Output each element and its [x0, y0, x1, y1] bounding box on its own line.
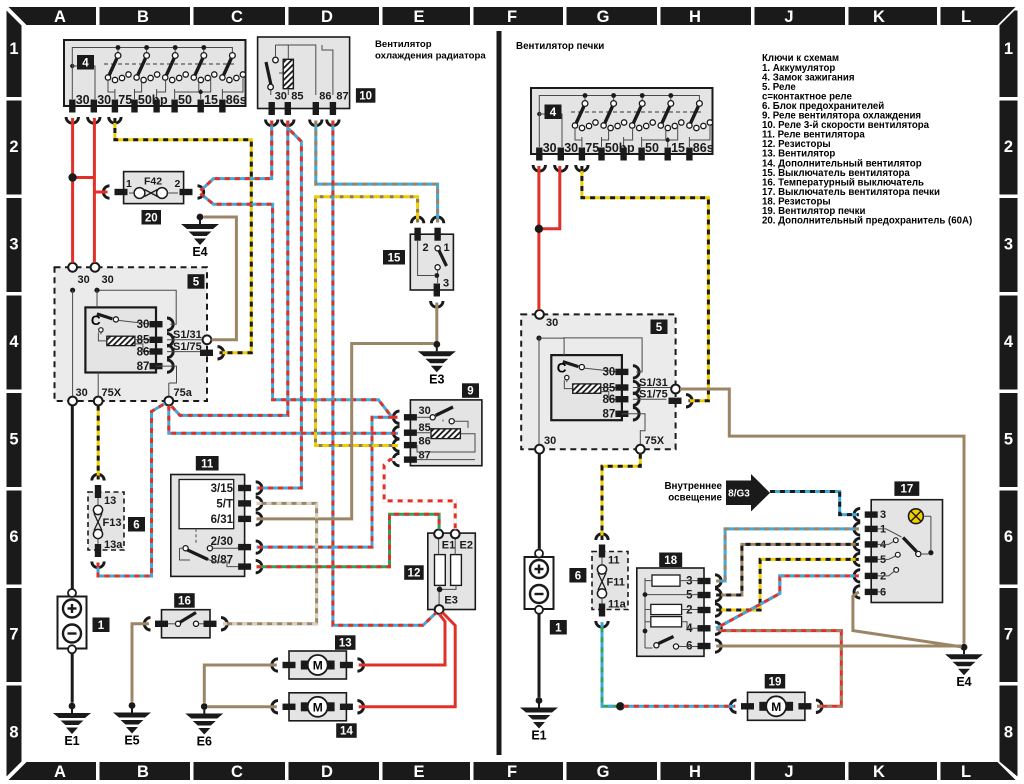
title: radiator fan circuit: [375, 39, 486, 62]
svg-text:30: 30: [97, 93, 111, 107]
svg-text:75X: 75X: [645, 435, 665, 447]
wire resistors12 E3 to fan14: [359, 613, 456, 707]
component tag 4 (left ignition switch-tag): [77, 55, 94, 70]
svg-text:2: 2: [1004, 138, 1013, 156]
svg-text:30: 30: [564, 141, 578, 155]
svg-text:p: p: [160, 93, 168, 107]
svg-text:20: 20: [145, 212, 158, 224]
component tag 1 (left battery-tag): [93, 618, 110, 633]
svg-text:M: M: [313, 700, 323, 714]
wire ignition(R) 30 to relay5R: [537, 166, 540, 310]
svg-text:2: 2: [423, 242, 429, 254]
svg-text:5: 5: [686, 590, 693, 602]
component tag 6 (fuse F11-tag): [569, 568, 586, 583]
svg-text:E2: E2: [460, 540, 473, 552]
wire resistors18 pin6 to ground E4: [716, 645, 961, 648]
relay 5 (left) outer dashed block: [55, 267, 208, 401]
svg-text:14: 14: [340, 726, 353, 738]
svg-text:85: 85: [603, 382, 616, 394]
svg-text:5: 5: [1004, 430, 1013, 448]
battery 1 (left battery): [58, 589, 87, 653]
svg-text:30: 30: [544, 435, 556, 447]
wire resistors18 pin5 to switch17 pin4: [716, 544, 859, 595]
svg-text:20. Дополнительный предохранит: 20. Дополнительный предохранитель (60А): [762, 216, 972, 227]
svg-text:G: G: [597, 763, 610, 781]
wire ignition 75 to relay5 S1/75: [115, 118, 251, 353]
svg-text:86: 86: [419, 436, 431, 448]
svg-text:75X: 75X: [102, 387, 122, 399]
wire relay11 5/T to temp switch 16: [223, 503, 317, 623]
svg-text:2: 2: [175, 178, 181, 190]
motor (fan 13): [272, 651, 364, 679]
svg-text:E4: E4: [192, 245, 207, 259]
component tag 20 (fuseF42-tag): [142, 210, 162, 225]
ignition switch 4 (right ignition switch): [531, 88, 714, 171]
junction heater fan feed: [616, 702, 624, 710]
component tag 18 (comp18-tag): [659, 553, 682, 568]
svg-text:30: 30: [546, 317, 558, 329]
svg-text:87: 87: [137, 361, 150, 373]
svg-text:освещение: освещение: [668, 493, 722, 504]
wire fuse F13 to 75a: [98, 404, 165, 577]
battery 1 (right battery): [525, 550, 554, 614]
svg-text:30: 30: [603, 367, 616, 379]
svg-text:6: 6: [9, 528, 18, 546]
svg-text:50: 50: [178, 93, 192, 107]
relay 10 (3rd speed fan relay): [258, 37, 350, 126]
legend: key to diagrams: [762, 53, 972, 226]
relay 5 (right) outer dashed block: [521, 314, 675, 449]
wire relay10 pin85 to relay11 3/15: [257, 122, 302, 488]
svg-text:C: C: [231, 8, 243, 26]
junction heater feed: [535, 225, 543, 233]
svg-text:11: 11: [608, 555, 620, 567]
relay 11 (fan relay block): [171, 475, 262, 577]
wire arrow 8/G3 to switch17 pin3: [770, 492, 859, 515]
svg-text:3: 3: [880, 509, 886, 521]
svg-text:50: 50: [645, 141, 659, 155]
wire junction to heater fan 19: [624, 705, 736, 708]
svg-text:D: D: [321, 8, 333, 26]
wire relay5R S1/31 to ground E4: [680, 389, 964, 644]
wire ignition(R) 30b link: [543, 166, 560, 229]
component tag 1 (right battery-tag): [550, 620, 567, 635]
svg-text:30: 30: [419, 405, 431, 417]
wire feed to fuse F42 pin1: [94, 191, 107, 194]
svg-text:M: M: [313, 659, 323, 673]
ground E4 (radiator relay ground): [181, 214, 219, 259]
component tag 9 (relay9-tag): [462, 383, 479, 398]
wire temp switch 16 to ground E5: [132, 624, 149, 702]
svg-text:30: 30: [76, 387, 88, 399]
svg-text:A: A: [54, 763, 66, 781]
component tag 15 (switch15-tag): [383, 250, 405, 265]
svg-text:8: 8: [1004, 723, 1013, 741]
svg-text:E: E: [413, 763, 424, 781]
svg-text:2: 2: [9, 138, 18, 156]
component tag 6 (fuse F13-tag): [128, 517, 145, 532]
svg-text:2: 2: [686, 605, 692, 617]
svg-text:5: 5: [9, 430, 18, 448]
component tag 11 (relay11-tag): [196, 456, 219, 471]
relay 5 (left) contact relay C: [85, 290, 176, 373]
component tag 13 (motor13-tag): [335, 635, 356, 650]
wire relay10 pin86 to switch15 pin1: [316, 121, 438, 223]
svg-text:86: 86: [603, 394, 616, 406]
svg-text:J: J: [784, 8, 793, 26]
svg-text:30: 30: [102, 274, 114, 286]
wire feed link 30-30: [73, 176, 95, 179]
svg-text:15: 15: [388, 252, 401, 264]
wire switch15 pin2 to relay9 pin86: [316, 197, 418, 446]
wire 75a to relay9 pin85: [169, 406, 398, 434]
ground E1 (left battery ground): [53, 703, 91, 748]
svg-text:E1: E1: [531, 729, 546, 743]
resistors 12: [428, 530, 476, 614]
svg-text:E3: E3: [429, 372, 444, 386]
svg-text:3: 3: [443, 278, 449, 290]
svg-text:2/30: 2/30: [211, 536, 233, 548]
svg-text:K: K: [873, 8, 885, 26]
svg-text:3/15: 3/15: [211, 483, 234, 495]
fuse F42 (extra 60A fuse, 20): [103, 172, 203, 204]
svg-text:87: 87: [603, 409, 616, 421]
ground E1 (heater battery ground): [520, 697, 558, 742]
svg-text:6: 6: [133, 519, 139, 531]
wire fuse F11 to heater fan junction: [602, 622, 617, 706]
wire resistors18 pin3 to switch17 pin1: [716, 529, 859, 581]
svg-text:E4: E4: [956, 675, 971, 689]
ground E4 (heater switch ground): [945, 644, 983, 689]
svg-text:85: 85: [291, 91, 303, 103]
svg-text:4: 4: [1004, 333, 1014, 351]
wire ignition 30 to relay5 (battery feed a): [71, 118, 74, 263]
svg-text:86s: 86s: [693, 141, 714, 155]
connector arrow 8/G3 (interior lighting feed): [726, 474, 770, 512]
relay 9 (radiator fan relay): [393, 400, 482, 466]
motor (extra fan 14): [272, 693, 364, 721]
svg-text:11a: 11a: [608, 599, 627, 611]
svg-text:6/31: 6/31: [211, 514, 234, 526]
wire relay9 pin30 to relay11 2/30: [257, 417, 394, 547]
component tag 16 (switch16-tag): [174, 593, 195, 608]
svg-text:F: F: [507, 8, 517, 26]
svg-text:Внутреннее: Внутреннее: [664, 481, 722, 492]
wire resistors18 pin4 to switch17 pin2: [716, 576, 859, 628]
fuse F11 (fuse F11): [592, 534, 628, 627]
svg-text:13: 13: [104, 495, 116, 507]
svg-text:13: 13: [339, 638, 352, 650]
wire fuse F42 pin2 to relay10 pin30: [201, 121, 272, 191]
svg-text:30: 30: [76, 93, 90, 107]
fuse F13 (fuse F13): [88, 474, 124, 567]
component tag 10 (relay10-tag): [356, 88, 376, 103]
svg-text:E1: E1: [64, 734, 79, 748]
svg-text:E6: E6: [197, 735, 212, 749]
svg-text:F42: F42: [144, 176, 162, 188]
svg-text:Вентилятор печки: Вентилятор печки: [516, 41, 604, 52]
ground E3 (fan switch ground): [418, 341, 456, 386]
svg-text:Вентилятор: Вентилятор: [375, 39, 432, 50]
svg-text:86: 86: [137, 346, 150, 358]
component tag 4 (right ignition switch-tag): [545, 105, 562, 120]
svg-text:5/T: 5/T: [216, 498, 233, 510]
wire battery to ground E1: [71, 654, 74, 703]
svg-text:13a: 13a: [104, 539, 123, 551]
svg-text:E5: E5: [124, 734, 139, 748]
svg-text:16: 16: [178, 596, 191, 608]
relay 5 left terminals: [68, 263, 224, 406]
wire relay5R 30 to battery(R): [538, 454, 541, 549]
svg-text:G: G: [597, 8, 610, 26]
svg-text:8/87: 8/87: [211, 554, 233, 566]
ground E5 (temp switch ground): [113, 702, 151, 747]
svg-text:B: B: [137, 763, 149, 781]
wire relay11 6/31 to ground E3: [257, 344, 434, 519]
svg-text:S1/31: S1/31: [173, 329, 202, 341]
wire relay10 pin85 to 75a: [172, 121, 288, 416]
svg-text:K: K: [873, 763, 885, 781]
svg-text:S1/31: S1/31: [639, 377, 668, 389]
label: interior lighting: [664, 481, 722, 504]
svg-text:15: 15: [671, 141, 685, 155]
svg-text:F13: F13: [103, 517, 122, 529]
svg-text:S1/75: S1/75: [173, 341, 202, 353]
svg-text:B: B: [137, 8, 149, 26]
wire resistors18 pin2 to switch17 pin5: [716, 559, 859, 610]
svg-text:85: 85: [137, 335, 150, 347]
svg-text:6: 6: [575, 570, 581, 582]
svg-text:H: H: [689, 763, 701, 781]
svg-text:1: 1: [444, 242, 450, 254]
svg-text:6: 6: [1004, 528, 1013, 546]
svg-text:4: 4: [82, 57, 89, 69]
svg-text:F11: F11: [607, 577, 625, 589]
page divider: [497, 31, 502, 755]
svg-text:19: 19: [769, 676, 782, 688]
svg-text:1: 1: [555, 622, 562, 634]
switch 16 (temperature switch): [144, 610, 227, 638]
svg-text:L: L: [961, 763, 971, 781]
wire ignition(R) 75 to relay5R S1/75: [582, 166, 709, 401]
component tag 14 (motor14-tag): [336, 723, 357, 738]
svg-text:7: 7: [1004, 625, 1013, 643]
svg-text:30: 30: [275, 91, 287, 103]
svg-text:75: 75: [585, 141, 599, 155]
component tag 5 (comp5L-tag): [188, 274, 205, 289]
wire relay5R 75X to fuse F11: [602, 454, 640, 540]
wire fuse F42 pin2 to relay9 pin30: [201, 194, 398, 418]
svg-text:30: 30: [137, 319, 150, 331]
wire resistors12 E3 to fan13: [359, 614, 445, 665]
svg-text:17: 17: [900, 484, 913, 496]
svg-text:10: 10: [359, 91, 372, 103]
motor (heater fan 19): [730, 692, 822, 720]
resistors 18 (heater fan resistors): [637, 568, 721, 656]
svg-text:1: 1: [98, 620, 105, 632]
wire switch17 pin6 to ground E4: [853, 592, 962, 647]
svg-text:30: 30: [78, 274, 90, 286]
svg-text:9: 9: [467, 386, 473, 398]
svg-text:S1/75: S1/75: [639, 389, 668, 401]
svg-text:C: C: [231, 763, 243, 781]
wire relay5L 30 to battery: [71, 406, 74, 589]
svg-text:3: 3: [1004, 235, 1013, 253]
svg-text:D: D: [321, 763, 333, 781]
ground E6 (fan ground): [185, 703, 223, 748]
svg-text:1: 1: [126, 178, 132, 190]
junction battery feed: [68, 173, 76, 181]
svg-text:11: 11: [201, 458, 214, 470]
svg-text:30: 30: [543, 141, 557, 155]
svg-text:1: 1: [9, 40, 18, 58]
wire switch15 pin3 to ground E3: [435, 303, 438, 342]
svg-text:87: 87: [336, 91, 348, 103]
wire fan14 to ground E6: [208, 705, 277, 708]
wire relay9 pin87 to resistors12 E2: [384, 460, 455, 530]
svg-text:75a: 75a: [174, 387, 193, 399]
svg-text:H: H: [689, 8, 701, 26]
component tag 17 (switch17-tag): [894, 481, 919, 496]
svg-text:8/G3: 8/G3: [728, 489, 750, 500]
svg-text:1: 1: [1004, 40, 1013, 58]
svg-text:7: 7: [9, 625, 18, 643]
wire relay10 pin87 to resistors12 E3: [333, 121, 436, 626]
svg-text:15: 15: [204, 93, 218, 107]
svg-text:5: 5: [193, 277, 200, 289]
svg-text:4: 4: [550, 107, 557, 119]
svg-text:3: 3: [9, 235, 18, 253]
wire fan13 to ground E6: [204, 665, 276, 703]
svg-text:12: 12: [408, 568, 421, 580]
wire 75X to fuse F13: [97, 406, 100, 480]
svg-text:75: 75: [118, 93, 132, 107]
svg-text:J: J: [784, 763, 793, 781]
svg-text:p: p: [627, 141, 635, 155]
ignition switch 4 (left ignition switch): [64, 40, 247, 123]
svg-text:8: 8: [9, 723, 18, 741]
relay 5 right terminals: [535, 310, 692, 454]
svg-text:86s: 86s: [226, 93, 247, 107]
svg-text:E3: E3: [444, 595, 457, 607]
svg-text:E: E: [413, 8, 424, 26]
wire battery(R) to ground E1: [538, 614, 541, 697]
svg-text:L: L: [961, 8, 971, 26]
component tag 19 (motor19-tag): [765, 674, 786, 689]
svg-text:86: 86: [319, 91, 331, 103]
svg-text:3: 3: [686, 576, 692, 588]
svg-text:F: F: [507, 763, 517, 781]
wire relay5L S1/31 to ground E4: [204, 217, 237, 340]
switch 15 (fan switch): [410, 217, 453, 307]
svg-text:4: 4: [9, 333, 19, 351]
component tag 5 (comp5R-tag): [651, 320, 668, 335]
component tag 12 (comp12-tag): [404, 565, 424, 580]
wire ignition 30b to relay5 (battery feed b): [93, 118, 96, 263]
svg-text:5: 5: [656, 322, 663, 334]
wire heater fan 19 to resistors18 pin4: [717, 629, 842, 707]
svg-text:A: A: [54, 8, 66, 26]
relay 5 (right) contact relay C: [551, 338, 642, 421]
switch 17 (heater fan switch): [854, 500, 942, 603]
svg-text:E1: E1: [442, 540, 455, 552]
wire relay11 8/87 to resistors12 E1: [257, 514, 440, 566]
svg-text:охлаждения радиатора: охлаждения радиатора: [375, 51, 486, 62]
svg-text:M: M: [771, 700, 781, 714]
svg-text:18: 18: [664, 555, 677, 567]
